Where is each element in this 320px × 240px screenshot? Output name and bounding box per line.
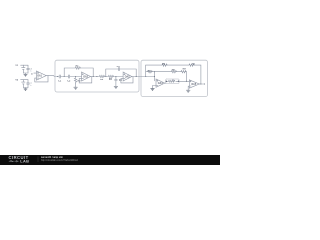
- wire plus to ground: [153, 86, 157, 89]
- logo wire doodle: [9, 160, 19, 162]
- divider: [37, 156, 39, 162]
- node B2: [115, 76, 116, 77]
- wire feedback down stage2: [120, 69, 137, 77]
- resistor R8: [171, 71, 176, 73]
- ground: [24, 74, 27, 76]
- svg-text:OA1: OA1: [37, 75, 42, 78]
- node A: [64, 76, 65, 77]
- wire plus to ground: [188, 86, 189, 90]
- op-amp OA5: [189, 80, 199, 88]
- node dot: [93, 76, 94, 77]
- svg-text:OA4: OA4: [158, 82, 163, 85]
- ground: [151, 89, 155, 91]
- capacitor C6 bypass: [23, 65, 29, 73]
- wire stage1 out: [91, 76, 100, 78]
- wire: [70, 76, 82, 78]
- wire stage2 out: [132, 76, 141, 78]
- wire join V2/C7: [23, 88, 28, 89]
- capacitor C2: [68, 75, 69, 78]
- node stage1 in: [57, 76, 58, 77]
- wire: [104, 76, 108, 78]
- capacitor C1: [59, 75, 60, 78]
- wire join V1/C6: [23, 73, 28, 74]
- node dot: [200, 83, 201, 84]
- svg-text:OA5: OA5: [191, 83, 196, 86]
- node dot: [154, 76, 155, 77]
- wire op-amp1 feedback loop: [79, 77, 92, 83]
- wire buffer out: [48, 75, 58, 78]
- op-amp OA3: [123, 72, 132, 81]
- op-amp OA4: [156, 79, 165, 87]
- wire: [58, 76, 60, 78]
- wire riser: [145, 65, 147, 76]
- wire mid feedback: [146, 72, 187, 82]
- wire feedback up: [64, 68, 75, 77]
- potentiometer R10: [166, 79, 179, 84]
- svg-text:http://circuitlab.com/c/72a3sv: http://circuitlab.com/c/72a3sv9Wrtvd: [41, 159, 79, 162]
- ground: [186, 90, 190, 92]
- resistor R2: [74, 77, 76, 84]
- capacitor C7 bypass: [23, 80, 29, 88]
- wire feedback down: [80, 68, 93, 77]
- stage box 1: [55, 60, 139, 92]
- svg-text:1u: 1u: [30, 71, 32, 73]
- wire op-amp feedback loop: [121, 77, 133, 83]
- resistor R6: [162, 64, 167, 66]
- battery V2: [21, 80, 25, 88]
- node out terminal: [204, 83, 205, 84]
- node dot: [145, 76, 146, 77]
- node dot: [136, 76, 137, 77]
- capacitor C3: [118, 67, 119, 70]
- ground: [114, 86, 118, 88]
- wire op-amp out to pot: [165, 81, 167, 83]
- wire: [61, 76, 69, 78]
- wire top feedback: [146, 65, 201, 84]
- wire pot to op-amp4: [179, 80, 190, 82]
- node dot: [186, 81, 187, 82]
- svg-text:LAB: LAB: [20, 159, 29, 164]
- battery V1: [21, 65, 25, 73]
- wire: [113, 76, 123, 78]
- node junction: [154, 71, 155, 72]
- op-amp OA1 buffer: [36, 71, 46, 80]
- resistor R9: [181, 71, 186, 73]
- capacitor C4: [115, 77, 118, 86]
- svg-text:OA2: OA2: [83, 76, 88, 79]
- wire output: [199, 83, 204, 85]
- resistor R4: [108, 75, 113, 77]
- svg-text:zeroes01 / amp sim: zeroes01 / amp sim: [41, 156, 63, 159]
- wire follower feedback: [35, 76, 48, 82]
- svg-text:OA3: OA3: [125, 76, 130, 79]
- footer bar: [0, 155, 220, 165]
- wire input: [34, 72, 37, 74]
- ground: [24, 89, 27, 91]
- wire input right box: [141, 76, 155, 78]
- wire drop to op-amp: [154, 72, 156, 81]
- resistor R7: [189, 64, 194, 66]
- resistor R3: [99, 75, 104, 77]
- stage box 2: [141, 60, 208, 96]
- pot end dots: [166, 81, 167, 82]
- node dot: [96, 76, 97, 77]
- ground: [74, 87, 78, 89]
- resistor R5: [148, 71, 153, 73]
- node A2: [105, 76, 106, 77]
- op-amp OA2: [82, 72, 91, 81]
- wire feedback up stage2: [106, 69, 119, 77]
- resistor R1: [75, 67, 80, 69]
- wire to ground: [75, 84, 77, 87]
- svg-text:1u: 1u: [30, 85, 32, 87]
- node B: [75, 76, 76, 77]
